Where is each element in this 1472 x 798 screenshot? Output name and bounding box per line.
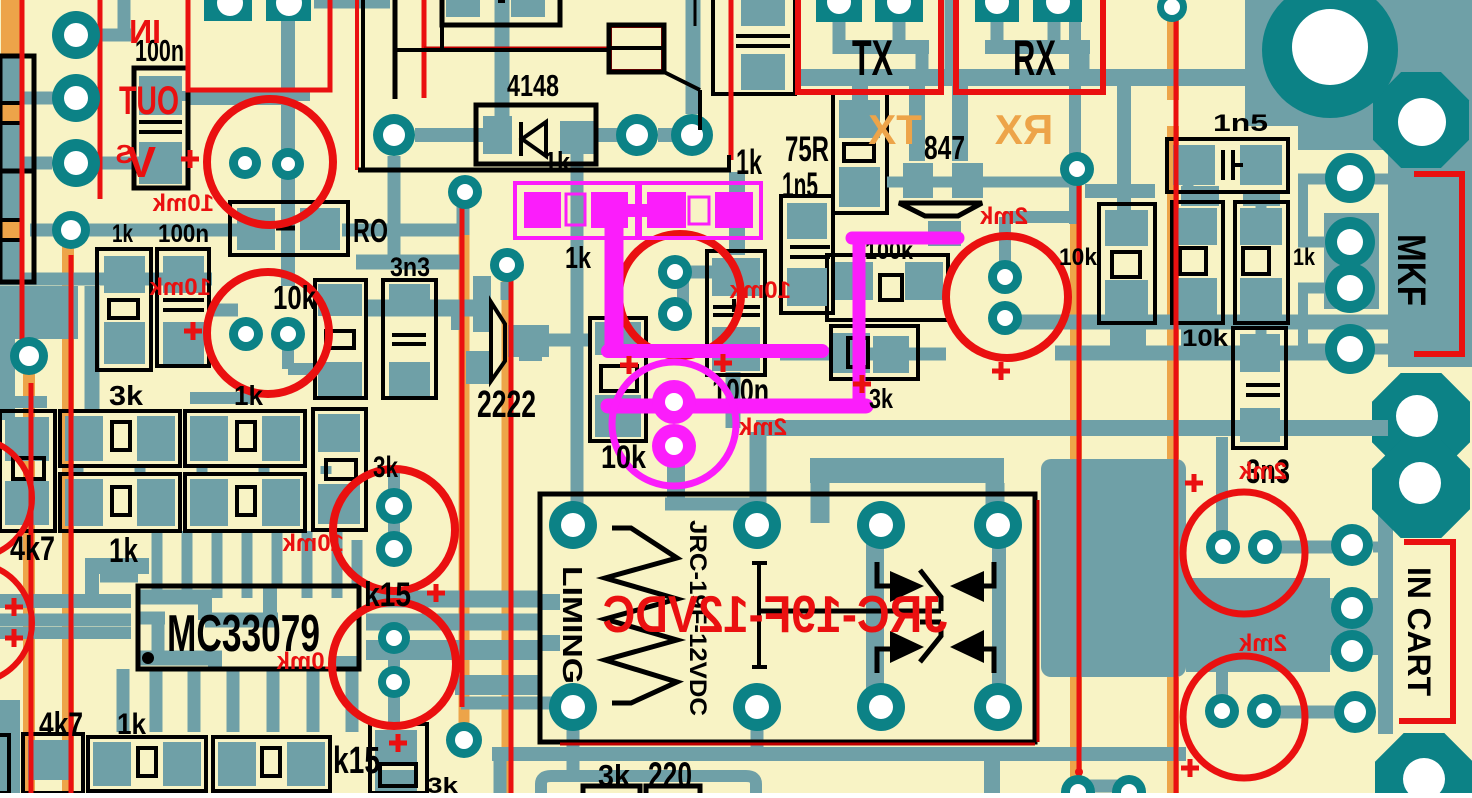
svg-text:10mk: 10mk xyxy=(729,277,791,304)
svg-text:1n5: 1n5 xyxy=(782,166,818,205)
svg-text:RX: RX xyxy=(995,106,1053,153)
svg-text:4k7: 4k7 xyxy=(10,530,55,568)
svg-text:10mk: 10mk xyxy=(276,648,338,675)
svg-text:3n3: 3n3 xyxy=(390,252,430,282)
svg-text:3k: 3k xyxy=(373,451,398,484)
svg-text:1n5: 1n5 xyxy=(1213,110,1268,137)
svg-text:1k: 1k xyxy=(109,532,138,570)
svg-text:10k: 10k xyxy=(1182,325,1229,352)
svg-text:IN CART: IN CART xyxy=(1401,567,1437,696)
svg-text:k15: k15 xyxy=(364,576,411,614)
svg-text:RO: RO xyxy=(353,212,388,249)
svg-text:S: S xyxy=(116,139,133,169)
svg-text:1k: 1k xyxy=(1293,244,1316,271)
svg-text:3k: 3k xyxy=(427,773,459,793)
svg-text:2mk: 2mk xyxy=(979,203,1028,230)
svg-text:IN: IN xyxy=(129,13,161,50)
svg-text:1k: 1k xyxy=(736,143,762,182)
svg-text:1k: 1k xyxy=(544,147,571,179)
svg-text:10k: 10k xyxy=(601,439,646,475)
svg-text:3k: 3k xyxy=(109,380,143,411)
svg-text:10k: 10k xyxy=(1059,244,1098,271)
svg-text:1k: 1k xyxy=(565,240,592,275)
svg-text:OUT: OUT xyxy=(119,79,179,123)
svg-text:847: 847 xyxy=(924,129,965,166)
svg-text:TX: TX xyxy=(868,106,922,153)
svg-text:1k: 1k xyxy=(234,380,263,411)
svg-text:k15: k15 xyxy=(333,740,380,782)
svg-text:10mk: 10mk xyxy=(152,190,214,217)
svg-text:3k: 3k xyxy=(598,758,631,793)
svg-text:TX: TX xyxy=(852,30,893,86)
svg-text:2222: 2222 xyxy=(477,384,536,426)
svg-text:10mk: 10mk xyxy=(149,274,211,301)
svg-text:1k: 1k xyxy=(117,708,146,741)
svg-text:2mk: 2mk xyxy=(738,414,787,441)
svg-text:10k: 10k xyxy=(273,279,317,316)
svg-text:100n: 100n xyxy=(158,220,209,248)
svg-text:1k: 1k xyxy=(112,220,133,248)
svg-text:LIMING: LIMING xyxy=(557,566,588,684)
svg-text:4k7: 4k7 xyxy=(39,706,83,744)
svg-text:4148: 4148 xyxy=(507,68,559,103)
svg-text:10mk: 10mk xyxy=(282,530,344,557)
svg-text:RX: RX xyxy=(1013,30,1056,86)
svg-text:2mk: 2mk xyxy=(1238,458,1287,485)
svg-text:2mk: 2mk xyxy=(1238,630,1287,657)
svg-text:3k: 3k xyxy=(869,383,893,414)
svg-text:MKF: MKF xyxy=(1389,234,1433,306)
svg-text:220: 220 xyxy=(648,755,692,793)
svg-text:JRC-19F-12VDC: JRC-19F-12VDC xyxy=(603,586,948,644)
svg-text:75R: 75R xyxy=(785,130,829,169)
